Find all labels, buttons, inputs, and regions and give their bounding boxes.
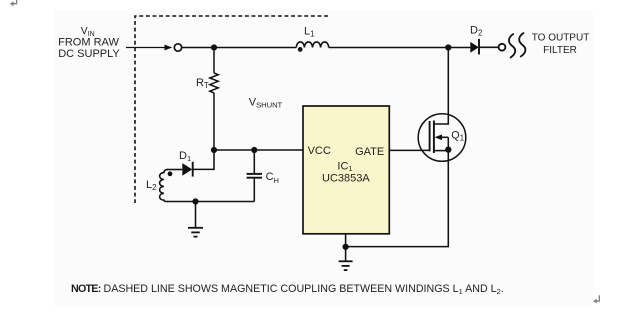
- wire: drain: [434, 48, 448, 125]
- wire: gate: [389, 149, 430, 151]
- ground (under L2): [188, 202, 203, 237]
- break squiggle 2: [519, 33, 525, 57]
- svg-text:NOTE: DASHED LINE SHOWS MAGNET: NOTE: DASHED LINE SHOWS MAGNETIC COUPLIN…: [71, 283, 504, 296]
- input arrow: [126, 45, 172, 51]
- IC1 box: [303, 106, 389, 234]
- Vin source label: [58, 26, 120, 60]
- gate bar: [429, 121, 431, 151]
- channel bar: [433, 121, 435, 154]
- transistor Q1: [418, 114, 466, 162]
- svg-text:UC3853A: UC3853A: [322, 173, 370, 185]
- coupling dashed line L1-L2: [135, 16, 328, 203]
- wire: input to L1: [182, 47, 296, 49]
- body arrow: [441, 136, 449, 138]
- paragraph mark bottom-right: [593, 295, 599, 303]
- wire: source to ground bus: [346, 151, 449, 247]
- wire: bottom bus L2 to CH: [167, 201, 254, 203]
- svg-text:VCC: VCC: [308, 145, 331, 157]
- svg-text:GATE: GATE: [355, 146, 384, 158]
- capacitor CH: [247, 150, 262, 202]
- node: IC ground: [342, 244, 348, 250]
- inductor L2: [160, 170, 168, 202]
- wire: node down to D1: [194, 150, 215, 169]
- node: Rt bottom: [211, 147, 217, 153]
- ground (under IC1): [339, 234, 353, 270]
- output terminal circle: [499, 44, 506, 51]
- inductor L1: [296, 42, 328, 48]
- diode D2: [470, 39, 498, 55]
- source lead: [434, 150, 448, 152]
- break squiggle 1: [509, 34, 515, 58]
- node: drain junction: [445, 44, 451, 50]
- svg-text:DC SUPPLY: DC SUPPLY: [58, 48, 120, 60]
- node: ground tap: [192, 198, 198, 204]
- input terminal circle: [174, 44, 181, 51]
- output label: [532, 33, 590, 57]
- polarity dot L2: [168, 171, 173, 176]
- image background: [54, 11, 593, 306]
- svg-text:FILTER: FILTER: [543, 45, 577, 56]
- source node: [445, 146, 451, 152]
- wire: VCC bus: [214, 149, 303, 151]
- resistor RT: [210, 48, 218, 151]
- diode D1: [167, 162, 193, 177]
- wire: L1 to D2: [329, 47, 471, 49]
- svg-text:TO OUTPUT: TO OUTPUT: [532, 33, 590, 44]
- polarity dot L1: [298, 47, 303, 52]
- node: CH top: [251, 147, 257, 153]
- paragraph mark top-left: [10, 0, 17, 6]
- node: top of Rt: [211, 44, 217, 50]
- svg-text:FROM RAW: FROM RAW: [58, 36, 119, 48]
